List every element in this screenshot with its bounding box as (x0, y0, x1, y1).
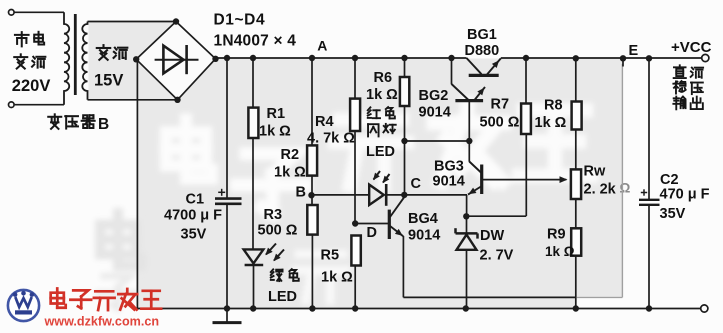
node (309, 305, 315, 311)
resistor R6 (400, 77, 409, 106)
wire BG4 emitter to E loop (403, 296, 576, 298)
transformer primary winding (64, 12, 69, 104)
wire top rail A (216, 57, 467, 59)
wire (575, 256, 577, 309)
logo W mark (15, 297, 31, 307)
resistor R5 (351, 236, 360, 266)
label 变压器B (48, 114, 61, 129)
svg-text:R8: R8 (544, 98, 563, 114)
resistor R2 (307, 145, 317, 175)
label 红色 (368, 107, 380, 118)
svg-text:1k Ω: 1k Ω (545, 244, 575, 259)
wire (404, 106, 406, 195)
wire (226, 205, 228, 309)
svg-text:LED: LED (366, 144, 395, 160)
svg-text:www.dzkfw.com.cn: www.dzkfw.com.cn (44, 315, 160, 329)
wire (311, 235, 313, 309)
wire R7 down (525, 134, 527, 216)
LED green (244, 249, 264, 263)
terminal bottom right (701, 305, 708, 312)
wire (648, 58, 650, 199)
bridge diode symbol (155, 59, 199, 61)
label 直流 (674, 65, 686, 78)
wire (253, 265, 255, 309)
svg-text:D880: D880 (465, 43, 500, 59)
node DW top (463, 213, 469, 219)
wire BG3 base to Rw wiper (482, 179, 567, 181)
svg-text:1k Ω: 1k Ω (259, 124, 291, 140)
capacitor C1 (215, 197, 242, 200)
watermark ghost glyphs on white (99, 213, 142, 308)
wire top rail E (501, 57, 702, 59)
resistor R1 (248, 108, 258, 138)
label 闪烁 (368, 124, 379, 136)
label 绿色 (271, 269, 283, 281)
node bridge left (133, 56, 139, 62)
node bridge top (173, 18, 179, 24)
wire bottom rail (137, 308, 700, 310)
svg-text:1N4007 × 4: 1N4007 × 4 (214, 32, 297, 49)
terminal bottom-left (9, 102, 15, 108)
svg-text:BG3: BG3 (434, 159, 464, 175)
svg-text:B: B (296, 185, 306, 201)
label 输出 (673, 97, 685, 110)
svg-text:1k Ω: 1k Ω (321, 270, 353, 286)
svg-text:15V: 15V (94, 71, 123, 89)
node (523, 55, 529, 61)
resistor R9 (571, 228, 581, 255)
svg-text:35V: 35V (181, 227, 207, 243)
node (224, 305, 230, 311)
wire (575, 199, 577, 228)
potentiometer Rw (571, 169, 581, 199)
svg-text:BG1: BG1 (467, 27, 497, 43)
svg-text:BG4: BG4 (408, 211, 438, 227)
wire (14, 11, 64, 13)
node bridge bottom (174, 97, 180, 103)
resistor R4 (350, 99, 360, 131)
svg-text:DW: DW (480, 228, 504, 244)
svg-text:C: C (411, 176, 422, 192)
node (463, 305, 469, 311)
svg-text:9014: 9014 (419, 105, 451, 121)
logo text 电子开发王 (51, 288, 66, 307)
label 稳压 (673, 81, 685, 93)
logo circle (8, 290, 39, 321)
wire (648, 206, 650, 309)
wire (575, 58, 577, 102)
wire (525, 58, 527, 104)
node (352, 305, 358, 311)
node (448, 55, 454, 61)
gray panel around transformer secondary (89, 21, 178, 101)
wire BG4 emitter down (402, 236, 404, 297)
LED red arrows (374, 171, 381, 180)
svg-text:R6: R6 (374, 70, 393, 86)
svg-text:4. 7k Ω: 4. 7k Ω (307, 131, 355, 147)
svg-text:LED: LED (268, 289, 297, 305)
svg-text:R3: R3 (264, 207, 283, 223)
node (401, 55, 407, 61)
svg-text:1k Ω: 1k Ω (366, 87, 398, 103)
wire (88, 99, 178, 101)
wire (88, 21, 177, 23)
svg-text:Rw: Rw (584, 164, 606, 180)
svg-text:C1: C1 (186, 192, 205, 208)
node B (308, 192, 314, 198)
svg-text:D1~D4: D1~D4 (214, 11, 266, 28)
wire (311, 58, 313, 145)
wire node B to LED (312, 194, 370, 196)
wire BG2 base down (468, 102, 470, 162)
node (646, 305, 652, 311)
wire (404, 58, 406, 77)
svg-text:R1: R1 (267, 106, 286, 122)
resistor R7 (521, 104, 531, 135)
svg-text:500 Ω: 500 Ω (258, 223, 298, 239)
wire BG2 collector (451, 58, 453, 84)
wire (575, 130, 577, 170)
svg-text:35V: 35V (660, 206, 686, 222)
watermark ghost glyphs (166, 104, 591, 301)
label 交流15V (97, 45, 110, 60)
wire (15, 104, 64, 106)
node (573, 305, 579, 311)
svg-text:220V: 220V (12, 77, 51, 95)
transistor BG4 9014 (388, 210, 391, 239)
label 市电交流220V (15, 32, 29, 46)
wire D to BG4 base (355, 223, 388, 225)
transistor BG2 9014 (455, 99, 483, 102)
svg-text:4700 μ F: 4700 μ F (164, 208, 222, 224)
node (352, 55, 358, 61)
wire R7 to DW node (467, 215, 527, 217)
node (250, 305, 256, 311)
svg-text:500 Ω: 500 Ω (480, 115, 520, 131)
svg-text:R2: R2 (281, 147, 300, 163)
capacitor C2 (639, 199, 660, 201)
svg-text:Ω: Ω (620, 181, 631, 196)
transistor BG1 D880 (469, 74, 499, 77)
node D (352, 220, 358, 226)
wire E stub (622, 58, 624, 67)
wire C to BG3 emitter (404, 194, 467, 196)
svg-text:1k Ω: 1k Ω (274, 165, 306, 181)
svg-text:470 μ F: 470 μ F (660, 187, 710, 203)
node E (620, 55, 626, 61)
node R6 junction (401, 138, 407, 144)
wire (354, 131, 356, 224)
terminal top-left (9, 10, 15, 16)
LED green arrows (266, 244, 276, 255)
transformer secondary winding (82, 22, 87, 100)
terminal +VCC (702, 54, 709, 61)
node bridge right (212, 56, 218, 62)
bridge rectifier D1-D4 diamond (136, 22, 215, 100)
node on BG2 base line (466, 138, 472, 144)
svg-text:BG2: BG2 (419, 88, 449, 104)
resistor R3 (307, 205, 317, 235)
svg-text:B: B (98, 116, 109, 133)
svg-text:E: E (629, 43, 639, 59)
svg-text:2. 2k: 2. 2k (584, 182, 617, 198)
svg-text:1k Ω: 1k Ω (535, 115, 567, 131)
svg-text:D: D (367, 225, 377, 241)
wire (252, 138, 254, 250)
zener diode DW (466, 216, 468, 233)
node (309, 55, 315, 61)
svg-text:R4: R4 (315, 114, 334, 130)
svg-text:R5: R5 (321, 248, 340, 264)
transistor BG3 9014 (480, 165, 483, 195)
LED red flashing (369, 185, 384, 205)
svg-text:+VCC: +VCC (671, 39, 712, 56)
node (646, 55, 652, 61)
ground (226, 309, 228, 323)
resistor R8 (572, 102, 582, 130)
svg-text:A: A (317, 38, 327, 54)
wire cross link (405, 140, 470, 142)
wire (226, 58, 228, 198)
svg-text:2. 7V: 2. 7V (480, 248, 514, 264)
transformer core (74, 14, 77, 95)
node (224, 55, 230, 61)
node (250, 55, 256, 61)
wire (354, 266, 356, 309)
svg-text:R9: R9 (547, 227, 566, 243)
node C (401, 192, 407, 198)
svg-text:R7: R7 (491, 97, 510, 113)
wire emitter corner down (466, 195, 468, 216)
wire LED to C (386, 194, 404, 196)
node (573, 55, 579, 61)
svg-text:9014: 9014 (433, 174, 465, 190)
wire left drop from bridge (136, 59, 138, 308)
svg-text:9014: 9014 (408, 228, 440, 244)
wire (311, 176, 313, 205)
wire faded loop right (577, 296, 623, 298)
wire (252, 58, 254, 108)
wire (354, 58, 356, 99)
main gray circuit panel (137, 59, 623, 309)
